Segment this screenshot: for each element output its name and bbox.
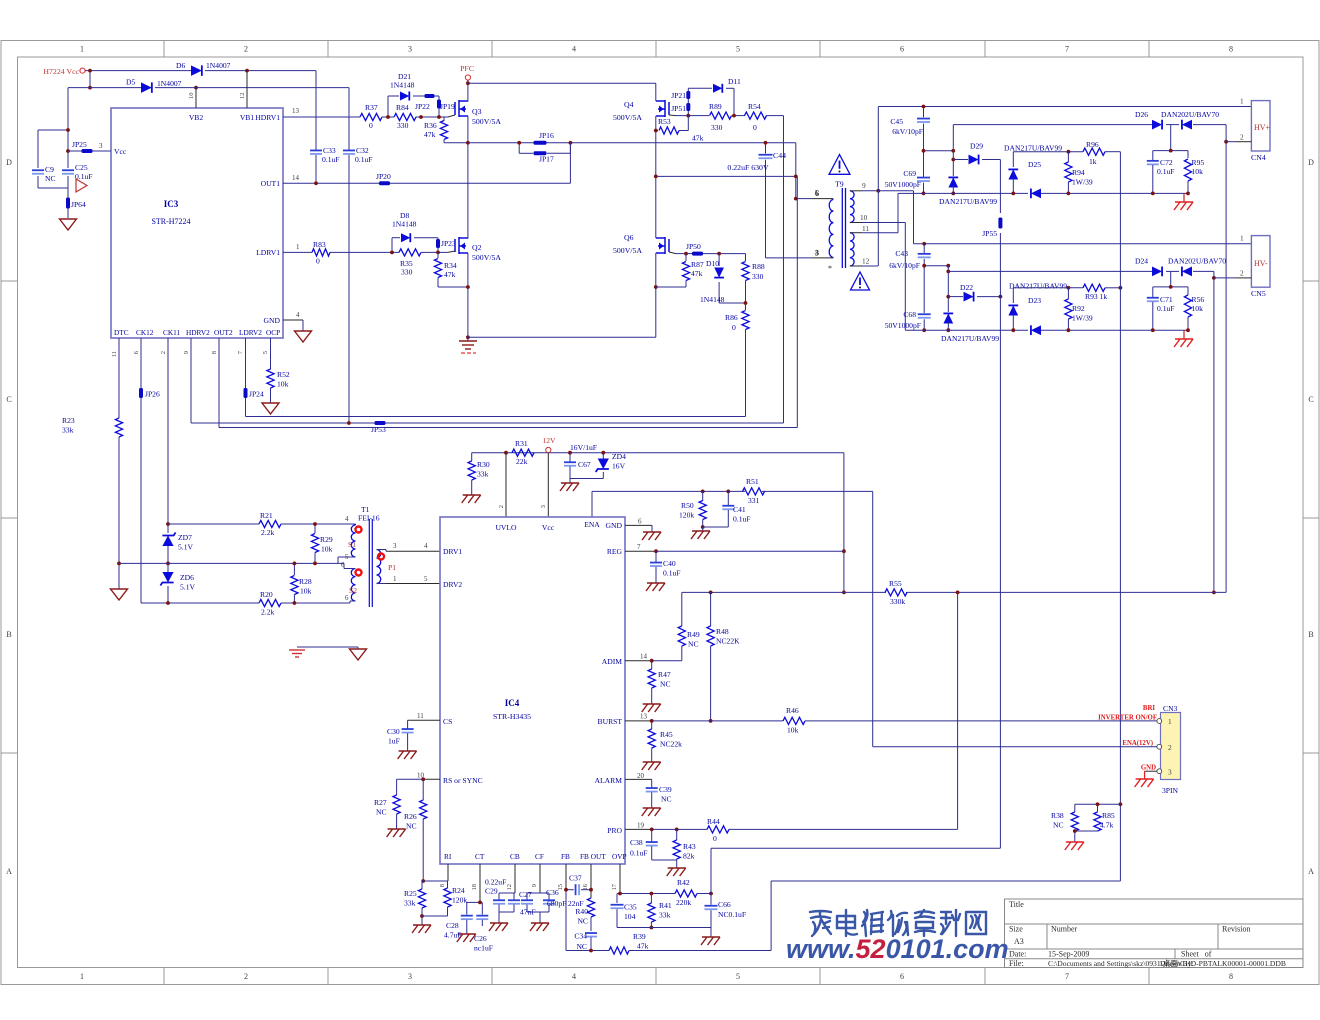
svg-text:330k: 330k bbox=[890, 597, 905, 606]
zener ZD6 5.1V bbox=[160, 572, 195, 592]
svg-text:JP64: JP64 bbox=[71, 200, 86, 209]
svg-text:JP23: JP23 bbox=[441, 239, 456, 248]
diode DAN202U/BAV70 lower bbox=[1168, 257, 1226, 277]
svg-text:A: A bbox=[6, 867, 12, 876]
resistor R50 120k bbox=[679, 491, 706, 528]
svg-text:680pF: 680pF bbox=[547, 899, 566, 908]
resistor R89 330 bbox=[709, 102, 732, 132]
wire CN5 riser bbox=[1212, 271, 1236, 594]
wire R21 row bbox=[168, 524, 356, 525]
svg-text:33k: 33k bbox=[62, 426, 74, 435]
svg-text:INVERTER ON/OF: INVERTER ON/OF bbox=[1098, 715, 1157, 722]
wire R20 row bbox=[281, 601, 350, 603]
svg-text:CT: CT bbox=[475, 852, 485, 861]
transistor Q6 500V/5A bbox=[613, 176, 676, 337]
warning triangle upper bbox=[829, 155, 850, 175]
diode DAN217U/BAV99 lower pair B bbox=[1009, 282, 1067, 336]
diode D11 bbox=[713, 77, 741, 93]
svg-text:330: 330 bbox=[711, 123, 723, 132]
svg-text:3: 3 bbox=[393, 542, 397, 550]
svg-text:DAN217U/BAV99: DAN217U/BAV99 bbox=[1004, 144, 1062, 153]
svg-text:PRO: PRO bbox=[607, 826, 622, 835]
svg-text:R56: R56 bbox=[1192, 295, 1205, 304]
svg-text:1: 1 bbox=[1240, 234, 1244, 243]
wire C71 tap bbox=[1153, 271, 1188, 288]
wire LDRV2 bus bbox=[246, 338, 746, 417]
svg-text:CB: CB bbox=[510, 852, 520, 861]
resistor R85 4.7k bbox=[1073, 804, 1115, 833]
ground chassis lower bbox=[1174, 330, 1193, 347]
svg-text:Size: Size bbox=[1009, 925, 1023, 934]
svg-text:11: 11 bbox=[111, 351, 118, 357]
svg-text:BURST: BURST bbox=[598, 717, 623, 726]
capacitor C33 0.1uF bbox=[310, 146, 340, 164]
wire 12V rail bbox=[472, 451, 846, 594]
svg-text:ENA: ENA bbox=[584, 520, 600, 529]
svg-text:R36: R36 bbox=[424, 121, 437, 130]
svg-text:3: 3 bbox=[99, 142, 103, 150]
svg-text:C27: C27 bbox=[519, 890, 532, 899]
warning triangle lower bbox=[851, 272, 870, 290]
diode DAN217U/BAV99 upper pair B bbox=[1004, 144, 1062, 199]
resistor R86 0 bbox=[725, 303, 749, 417]
jumper JP25 bbox=[68, 140, 111, 153]
svg-text:JP21: JP21 bbox=[671, 91, 686, 100]
IC4 pin numbers bbox=[393, 518, 648, 891]
svg-text:R43: R43 bbox=[683, 842, 696, 851]
wire feedback column right bbox=[1119, 152, 1123, 881]
svg-text:33k: 33k bbox=[659, 911, 671, 920]
svg-text:8: 8 bbox=[1229, 972, 1233, 981]
wire ALARM row bbox=[625, 778, 652, 780]
svg-text:JP55: JP55 bbox=[982, 229, 997, 238]
svg-text:LDRV1: LDRV1 bbox=[256, 248, 280, 257]
capacitor C72 0.1uF bbox=[1147, 151, 1175, 196]
svg-text:R83: R83 bbox=[313, 240, 326, 249]
svg-text:NC: NC bbox=[376, 808, 387, 817]
svg-text:2.2k: 2.2k bbox=[261, 528, 274, 537]
transistor Q3 500V/5A bbox=[448, 83, 501, 143]
svg-text:Vcc: Vcc bbox=[542, 523, 555, 532]
svg-text:NC22K: NC22K bbox=[716, 637, 740, 646]
resistor R55 330k bbox=[885, 579, 907, 606]
wire T9 pin 12 bbox=[850, 257, 878, 267]
svg-text:330: 330 bbox=[397, 121, 409, 130]
svg-text:C45: C45 bbox=[890, 117, 903, 126]
wire HV minus rail bbox=[914, 191, 1252, 246]
svg-text:C29: C29 bbox=[485, 887, 498, 896]
svg-text:NC: NC bbox=[576, 942, 587, 951]
svg-text:1uF: 1uF bbox=[388, 737, 400, 746]
svg-text:File:: File: bbox=[1009, 959, 1024, 968]
svg-text:Number: Number bbox=[1051, 925, 1078, 934]
svg-text:B: B bbox=[1308, 630, 1313, 639]
wire mid row bbox=[119, 562, 344, 564]
svg-text:R85: R85 bbox=[1102, 811, 1115, 820]
svg-text:R34: R34 bbox=[444, 261, 457, 270]
svg-text:C9: C9 bbox=[45, 165, 54, 174]
svg-text:5: 5 bbox=[736, 45, 740, 54]
wire PRO row bbox=[625, 592, 958, 831]
wire OCP column bbox=[270, 338, 272, 403]
svg-text:500V/5A: 500V/5A bbox=[613, 113, 642, 122]
svg-text:Vcc: Vcc bbox=[114, 147, 127, 156]
svg-text:10k: 10k bbox=[787, 726, 799, 735]
svg-text:11: 11 bbox=[862, 224, 869, 233]
svg-text:R27: R27 bbox=[374, 798, 387, 807]
zener ZD4 16V bbox=[570, 452, 626, 479]
svg-text:B: B bbox=[6, 630, 11, 639]
svg-text:ADIM: ADIM bbox=[602, 657, 622, 666]
ground pair below T1 bbox=[289, 647, 367, 660]
svg-text:OUT1: OUT1 bbox=[261, 179, 281, 188]
svg-text:33k: 33k bbox=[404, 899, 416, 908]
svg-text:1: 1 bbox=[1168, 717, 1172, 726]
power port arrow bbox=[76, 179, 87, 192]
svg-text:C69: C69 bbox=[903, 169, 916, 178]
wire P1 to DRV1 bbox=[377, 550, 441, 552]
net label PFC bbox=[460, 64, 474, 85]
svg-text:R26: R26 bbox=[404, 812, 417, 821]
svg-text:50V1000pF: 50V1000pF bbox=[885, 321, 921, 330]
svg-text:Revision: Revision bbox=[1222, 925, 1250, 934]
svg-text:331: 331 bbox=[748, 496, 760, 505]
svg-text:R45: R45 bbox=[660, 730, 673, 739]
wire bottom rail bbox=[468, 336, 656, 338]
capacitor C44 0.22uF 630V bbox=[727, 143, 786, 258]
svg-text:C33: C33 bbox=[323, 146, 336, 155]
capacitor C38 0.1uF bbox=[630, 829, 677, 860]
svg-text:47k: 47k bbox=[424, 130, 436, 139]
svg-text:DRV2: DRV2 bbox=[443, 580, 462, 589]
wire feedback link bbox=[711, 848, 1000, 893]
svg-text:R28: R28 bbox=[299, 577, 312, 586]
svg-text:C72: C72 bbox=[1160, 158, 1173, 167]
svg-text:Sheet of: Sheet of bbox=[1181, 950, 1212, 959]
wire BURST row bbox=[625, 719, 1157, 723]
capacitor C25 0.1uF bbox=[62, 163, 93, 181]
wire FB column bbox=[564, 864, 609, 951]
svg-text:R25: R25 bbox=[404, 889, 417, 898]
svg-text:R47: R47 bbox=[658, 670, 671, 679]
svg-text:4.7uF: 4.7uF bbox=[444, 931, 462, 940]
svg-text:10k: 10k bbox=[277, 380, 289, 389]
wire T9 pin 9 bbox=[850, 181, 914, 193]
capacitor C69 50V1000pF bbox=[885, 169, 930, 195]
svg-text:STR-H7224: STR-H7224 bbox=[151, 217, 190, 226]
jumper JP53 bbox=[371, 421, 386, 434]
wire Q6 gate row bbox=[676, 254, 746, 261]
svg-text:15-Sep-2009: 15-Sep-2009 bbox=[1048, 950, 1089, 959]
transistor Q2 500V/5A bbox=[448, 143, 501, 337]
wire T9 riser column bbox=[796, 176, 798, 427]
svg-text:Title: Title bbox=[1009, 900, 1024, 909]
svg-text:IC4: IC4 bbox=[505, 698, 520, 708]
svg-text:10k: 10k bbox=[321, 545, 333, 554]
resistor R92 1W/39 bbox=[1065, 288, 1093, 332]
wire CK12 column bbox=[141, 338, 259, 603]
capacitor C36 680pF bbox=[527, 888, 566, 931]
capacitor C37 22nF bbox=[568, 874, 591, 909]
svg-text:CN4: CN4 bbox=[1251, 153, 1266, 162]
svg-text:R94: R94 bbox=[1072, 168, 1085, 177]
resistor R34 47k bbox=[434, 252, 468, 287]
capacitor C68 50V1000pF bbox=[885, 310, 931, 332]
resistor R48 NC22K bbox=[707, 592, 740, 722]
jumper JP55 bbox=[982, 218, 1002, 239]
svg-text:8: 8 bbox=[211, 351, 218, 354]
wire Q4 gate row bbox=[676, 116, 784, 423]
resistor R95 10k bbox=[1184, 151, 1204, 196]
svg-text:OVP: OVP bbox=[612, 852, 627, 861]
svg-text:50V1000pF: 50V1000pF bbox=[885, 180, 921, 189]
svg-text:3: 3 bbox=[540, 505, 547, 508]
svg-text:HV-: HV- bbox=[1254, 259, 1268, 268]
wire PFC rail bbox=[468, 82, 656, 84]
IC3 pin numbers bbox=[99, 93, 300, 358]
capacitor C40 0.1uF bbox=[646, 551, 681, 591]
capacitor C34 NC bbox=[574, 932, 597, 953]
svg-text:0.1uF: 0.1uF bbox=[355, 155, 373, 164]
svg-text:1: 1 bbox=[296, 243, 300, 251]
svg-text:C26: C26 bbox=[474, 934, 487, 943]
resistor R25 33k bbox=[404, 881, 426, 925]
svg-text:T9: T9 bbox=[835, 180, 844, 189]
svg-text:D23: D23 bbox=[1028, 296, 1041, 305]
svg-text:JP26: JP26 bbox=[145, 390, 160, 399]
svg-text:0: 0 bbox=[732, 323, 736, 332]
wire LDRV1 bbox=[283, 251, 448, 253]
wire CB column bbox=[499, 864, 515, 893]
svg-text:R30: R30 bbox=[477, 460, 490, 469]
diode DAN217U/BAV99 lower pair A bbox=[941, 266, 999, 343]
svg-text:220k: 220k bbox=[676, 898, 691, 907]
svg-text:R86: R86 bbox=[725, 313, 738, 322]
net label 12V bbox=[542, 436, 556, 453]
svg-text:C68: C68 bbox=[903, 310, 916, 319]
net label GND bbox=[1141, 765, 1156, 772]
svg-text:NC: NC bbox=[577, 917, 588, 926]
jumper JP19 bbox=[437, 100, 455, 112]
wire CT column bbox=[467, 864, 483, 904]
svg-text:NC0.1uF: NC0.1uF bbox=[718, 910, 746, 919]
wire CN3 pin3 ground bbox=[1135, 771, 1157, 787]
wire HDRV1 bbox=[283, 116, 448, 118]
wire D8 branch bbox=[392, 238, 438, 253]
svg-text:R21: R21 bbox=[260, 511, 273, 520]
svg-text:R48: R48 bbox=[716, 627, 729, 636]
svg-text:2: 2 bbox=[1240, 269, 1244, 278]
svg-text:ENA(12V): ENA(12V) bbox=[1122, 740, 1153, 747]
svg-text:C30: C30 bbox=[387, 727, 400, 736]
svg-text:A3: A3 bbox=[1014, 937, 1024, 946]
svg-text:4: 4 bbox=[296, 311, 300, 319]
node T1 polarity dots bbox=[356, 527, 385, 576]
svg-text:JP22: JP22 bbox=[415, 102, 430, 111]
svg-text:BRI: BRI bbox=[1143, 705, 1155, 712]
resistor R41 33k bbox=[648, 894, 672, 930]
wire T9 pin 5 6 bbox=[794, 189, 834, 201]
svg-text:UVLO: UVLO bbox=[495, 523, 517, 532]
connector CN5 bbox=[1236, 234, 1270, 299]
resistor R45 NC22k bbox=[642, 721, 682, 770]
jumper JP22 bbox=[415, 94, 435, 111]
ground chassis upper bbox=[1174, 193, 1193, 210]
diode D29 bbox=[953, 142, 1000, 165]
svg-text:R23: R23 bbox=[62, 416, 75, 425]
svg-text:DAN202U/BAV70: DAN202U/BAV70 bbox=[1161, 110, 1219, 119]
svg-text:NC: NC bbox=[688, 640, 699, 649]
svg-text:JP53: JP53 bbox=[371, 425, 386, 434]
resistor R39 47k bbox=[609, 881, 1120, 954]
resistor R84 330 bbox=[394, 103, 416, 130]
capacitor C43 6kV/10pF bbox=[889, 244, 931, 313]
capacitor C9 NC bbox=[32, 165, 68, 188]
svg-text:REG: REG bbox=[607, 547, 623, 556]
svg-text:104: 104 bbox=[624, 912, 636, 921]
svg-text:18: 18 bbox=[471, 884, 478, 891]
svg-text:10k: 10k bbox=[300, 587, 312, 596]
resistor R46 10k bbox=[783, 706, 805, 735]
svg-text:Q4: Q4 bbox=[624, 100, 634, 109]
svg-text:NC: NC bbox=[1053, 821, 1064, 830]
svg-text:3: 3 bbox=[408, 45, 412, 54]
svg-text:GND: GND bbox=[606, 521, 623, 530]
svg-text:CN3: CN3 bbox=[1163, 704, 1178, 713]
wire C72 tap bbox=[1153, 125, 1188, 153]
jumper JP16 bbox=[534, 131, 554, 145]
ground below JP64 bbox=[60, 219, 77, 230]
svg-text:OUT2: OUT2 bbox=[214, 328, 233, 337]
svg-text:www.520101.com: www.520101.com bbox=[786, 934, 1009, 964]
capacitor C45 6kV/10pF bbox=[890, 107, 930, 178]
resistor R54 0 bbox=[745, 102, 767, 132]
jumper JP51 bbox=[671, 103, 690, 116]
svg-text:R20: R20 bbox=[260, 590, 273, 599]
svg-text:C34: C34 bbox=[574, 932, 587, 941]
svg-text:14: 14 bbox=[292, 174, 300, 182]
svg-text:0: 0 bbox=[369, 121, 373, 130]
net label BRI INVERTER ON/OFF bbox=[1098, 705, 1157, 722]
diode D26 bbox=[1135, 110, 1162, 129]
svg-text:JP24: JP24 bbox=[249, 390, 264, 399]
resistor R37 0 bbox=[360, 103, 382, 130]
svg-text:JP51: JP51 bbox=[671, 104, 686, 113]
svg-text:Drawn By:: Drawn By: bbox=[1160, 959, 1194, 968]
svg-text:0.1uF: 0.1uF bbox=[733, 515, 751, 524]
svg-text:DAN217U/BAV99: DAN217U/BAV99 bbox=[1009, 282, 1067, 291]
jumper JP50 bbox=[686, 242, 703, 256]
svg-text:DTC: DTC bbox=[114, 328, 129, 337]
svg-text:12: 12 bbox=[862, 257, 870, 266]
ground below C67 bbox=[560, 483, 579, 491]
svg-text:120k: 120k bbox=[452, 896, 467, 905]
svg-text:R46: R46 bbox=[786, 706, 799, 715]
svg-text:C41: C41 bbox=[733, 505, 746, 514]
svg-text:D5: D5 bbox=[126, 78, 135, 87]
wire upper rectifier rail bbox=[898, 192, 1188, 194]
svg-text:8: 8 bbox=[1229, 45, 1233, 54]
svg-text:JP50: JP50 bbox=[686, 242, 701, 251]
svg-text:C44: C44 bbox=[773, 151, 786, 160]
wire HDRV2 bus bbox=[191, 338, 784, 425]
wire OVP bus bbox=[617, 864, 713, 903]
svg-text:R50: R50 bbox=[681, 501, 694, 510]
diode DAN202U/BAV70 upper bbox=[1161, 110, 1219, 129]
svg-text:0: 0 bbox=[713, 834, 717, 843]
wire DTC column bbox=[117, 338, 121, 589]
wire VB2 VB1 stubs bbox=[196, 71, 247, 108]
resistor R30 33k bbox=[468, 460, 490, 495]
svg-text:16V/1uF: 16V/1uF bbox=[570, 443, 597, 452]
svg-text:13: 13 bbox=[640, 713, 648, 721]
diode D22 bbox=[948, 283, 1002, 301]
svg-text:R52: R52 bbox=[277, 370, 290, 379]
wire D11 branch bbox=[688, 88, 734, 115]
svg-text:GND: GND bbox=[1141, 765, 1156, 772]
resistor R38 NC bbox=[1051, 802, 1120, 842]
resistor R31 22k bbox=[512, 439, 534, 466]
wire C45 C69 mid rail bbox=[922, 149, 956, 153]
svg-text:3: 3 bbox=[1168, 768, 1172, 777]
wire D24 row bbox=[948, 270, 1214, 272]
svg-text:33k: 33k bbox=[477, 470, 489, 479]
jumper JP26 bbox=[139, 388, 160, 399]
svg-text:OCP: OCP bbox=[266, 328, 280, 337]
resistor R53 47k bbox=[654, 116, 704, 143]
svg-text:GND: GND bbox=[264, 316, 281, 325]
svg-text:D: D bbox=[6, 158, 12, 167]
svg-text:2.2k: 2.2k bbox=[261, 608, 274, 617]
svg-text:0: 0 bbox=[316, 257, 320, 266]
svg-text:D24: D24 bbox=[1135, 257, 1148, 266]
resistor R93 1k bbox=[1083, 284, 1107, 301]
svg-text:RS or SYNC: RS or SYNC bbox=[443, 776, 483, 785]
svg-text:ZD4: ZD4 bbox=[612, 452, 626, 461]
svg-text:6: 6 bbox=[638, 518, 642, 526]
svg-text:Q3: Q3 bbox=[472, 107, 482, 116]
capacitor C41 0.1uF bbox=[703, 491, 751, 527]
resistor R47 NC bbox=[642, 661, 671, 712]
svg-text:R40: R40 bbox=[575, 907, 588, 916]
svg-text:HDRV2: HDRV2 bbox=[186, 328, 210, 337]
svg-text:47k: 47k bbox=[637, 942, 649, 951]
svg-text:Date:: Date: bbox=[1009, 950, 1026, 959]
svg-text:CF: CF bbox=[535, 852, 544, 861]
diode D24 bbox=[1135, 257, 1162, 277]
svg-text:4: 4 bbox=[345, 515, 349, 523]
svg-text:20: 20 bbox=[637, 772, 645, 780]
svg-text:R31: R31 bbox=[515, 439, 528, 448]
svg-text:C66: C66 bbox=[718, 900, 731, 909]
svg-text:1N4148: 1N4148 bbox=[390, 81, 415, 90]
svg-text:6kV/10pF: 6kV/10pF bbox=[889, 261, 920, 270]
svg-text:S1: S1 bbox=[348, 540, 356, 549]
wire RI column bbox=[422, 864, 448, 881]
svg-text:11: 11 bbox=[417, 712, 424, 720]
svg-text:0.22uF 630V: 0.22uF 630V bbox=[727, 163, 769, 172]
ground below R25 bbox=[412, 925, 431, 933]
wire R93 row bbox=[1013, 286, 1122, 290]
svg-text:DAN217U/BAV99: DAN217U/BAV99 bbox=[941, 334, 999, 343]
svg-text:HDRV1: HDRV1 bbox=[255, 113, 280, 122]
svg-text:HV+: HV+ bbox=[1254, 123, 1271, 132]
wire Vcc stub bbox=[540, 453, 548, 517]
resistor R83 0 bbox=[312, 240, 330, 266]
ground below R30 bbox=[462, 495, 481, 503]
svg-text:nc1uF: nc1uF bbox=[474, 944, 493, 953]
wire T9 pin 3 4 bbox=[766, 249, 834, 258]
